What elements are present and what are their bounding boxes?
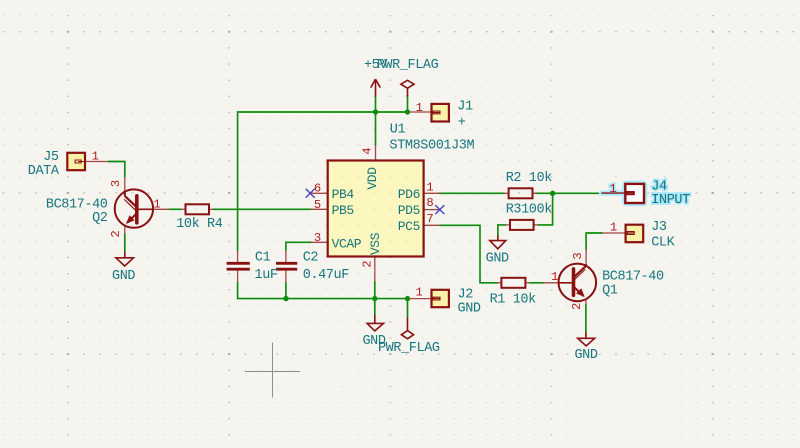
svg-text:1: 1 [426,180,433,194]
svg-text:1: 1 [153,198,160,212]
svg-text:GND: GND [486,252,509,267]
svg-text:1: 1 [92,150,99,164]
svg-text:3: 3 [314,231,321,245]
svg-text:4: 4 [360,147,374,154]
svg-text:8: 8 [426,196,433,210]
svg-text:R1 10k: R1 10k [490,293,537,308]
svg-text:1: 1 [416,101,423,115]
svg-text:U1: U1 [390,123,406,138]
svg-text:DATA: DATA [28,164,60,179]
svg-text:1uF: 1uF [255,268,278,283]
svg-text:2: 2 [570,303,584,310]
svg-text:PD6: PD6 [398,187,420,202]
svg-text:2: 2 [360,260,374,267]
svg-text:Q1: Q1 [602,284,618,299]
svg-text:J1: J1 [457,100,473,115]
svg-text:6: 6 [314,181,321,195]
svg-text:VSS: VSS [368,232,383,255]
svg-text:STM8S001J3M: STM8S001J3M [390,139,475,154]
svg-text:VDD: VDD [365,167,380,190]
svg-text:3: 3 [109,180,123,187]
svg-text:5: 5 [314,198,321,212]
svg-text:INPUT: INPUT [651,193,690,208]
svg-text:0.47uF: 0.47uF [303,268,350,283]
svg-text:1: 1 [416,286,423,300]
svg-text:PB4: PB4 [332,187,355,202]
svg-text:Q2: Q2 [92,211,108,226]
svg-text:C1: C1 [255,251,271,266]
svg-text:2: 2 [109,230,123,237]
svg-text:3: 3 [571,252,585,259]
svg-text:BC817-40: BC817-40 [602,269,664,284]
svg-text:GND: GND [458,302,481,317]
svg-text:7: 7 [426,212,433,226]
svg-text:1: 1 [609,182,616,196]
svg-text:1: 1 [610,221,617,235]
svg-text:VCAP: VCAP [332,236,362,251]
svg-text:+: + [458,115,466,130]
svg-text:PWR_FLAG: PWR_FLAG [377,58,439,73]
svg-text:J3: J3 [651,220,667,235]
svg-text:GND: GND [112,269,135,284]
svg-text:C2: C2 [303,251,319,266]
svg-text:J5: J5 [43,150,59,165]
svg-text:PWR_FLAG: PWR_FLAG [378,341,440,356]
svg-text:CLK: CLK [651,236,675,251]
svg-text:J4: J4 [651,179,667,194]
svg-text:GND: GND [574,348,597,363]
svg-text:R2 10k: R2 10k [506,171,553,186]
svg-text:PC5: PC5 [398,219,420,234]
svg-text:R3100k: R3100k [506,203,553,218]
svg-text:PD5: PD5 [398,203,420,218]
svg-text:1: 1 [551,270,558,284]
svg-text:J2: J2 [458,287,474,302]
svg-text:10k R4: 10k R4 [176,217,223,232]
svg-text:PB5: PB5 [332,203,354,218]
